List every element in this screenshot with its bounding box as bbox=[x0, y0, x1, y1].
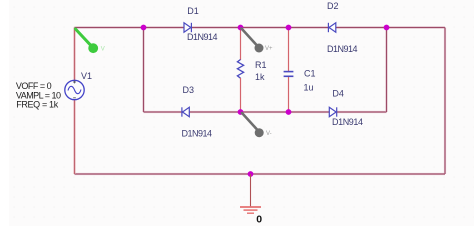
svg-text:FREQ = 1k: FREQ = 1k bbox=[16, 99, 59, 109]
junction dot middle net / C1 bbox=[286, 109, 292, 115]
junction dot top net / inner-right vertical bbox=[384, 25, 390, 31]
svg-text:0: 0 bbox=[256, 213, 262, 225]
svg-text:D1N914: D1N914 bbox=[187, 32, 218, 42]
diode D2 bbox=[328, 23, 335, 32]
svg-text:D1N914: D1N914 bbox=[327, 44, 358, 54]
voltage source V1 bbox=[65, 80, 84, 99]
svg-text:D2: D2 bbox=[327, 1, 339, 11]
diode D1 bbox=[184, 23, 191, 32]
svg-text:D1: D1 bbox=[187, 6, 199, 16]
wire: top net from source to right edge bbox=[75, 26, 446, 28]
svg-text:D1N914: D1N914 bbox=[332, 117, 363, 127]
svg-text:D3: D3 bbox=[183, 85, 195, 95]
resistor R1 bbox=[237, 28, 243, 113]
diode D3 bbox=[182, 107, 189, 116]
svg-text:V+: V+ bbox=[265, 46, 273, 52]
wire: right edge vertical bbox=[444, 28, 446, 175]
junction dot middle net / R1 bbox=[238, 109, 244, 115]
svg-text:V: V bbox=[101, 46, 105, 52]
svg-text:V1: V1 bbox=[81, 71, 92, 81]
svg-text:D1N914: D1N914 bbox=[182, 129, 213, 139]
capacitor C1 bbox=[284, 28, 294, 113]
junction dot bottom net / ground bbox=[248, 171, 254, 177]
junction dot top net / R1 bbox=[238, 25, 244, 31]
junction dot top net / C1 bbox=[286, 25, 292, 31]
svg-text:1k: 1k bbox=[255, 72, 265, 82]
wire: bottom return net bbox=[75, 173, 446, 175]
wire: left edge vertical through V1 bbox=[73, 28, 76, 175]
V1 property text VOFF/VAMPL/FREQ bbox=[16, 81, 61, 109]
svg-text:1u: 1u bbox=[304, 82, 314, 92]
svg-text:R1: R1 bbox=[255, 60, 267, 70]
voltage probe V- (gray) bbox=[242, 113, 272, 137]
wire: inner-left vertical from top net to middle net bbox=[142, 28, 144, 113]
voltage probe V (green) bbox=[76, 29, 105, 53]
ground 0 bbox=[240, 174, 261, 213]
voltage probe V+ (gray) bbox=[242, 29, 274, 53]
junction dot top net / inner-left vertical bbox=[141, 25, 147, 31]
diode D4 bbox=[329, 107, 336, 116]
wire: middle net horizontal bbox=[144, 111, 387, 113]
svg-text:V-: V- bbox=[266, 131, 272, 137]
wire: inner-right vertical from top net to middle net bbox=[385, 28, 387, 113]
svg-text:D4: D4 bbox=[332, 88, 344, 98]
svg-text:C1: C1 bbox=[304, 69, 316, 79]
